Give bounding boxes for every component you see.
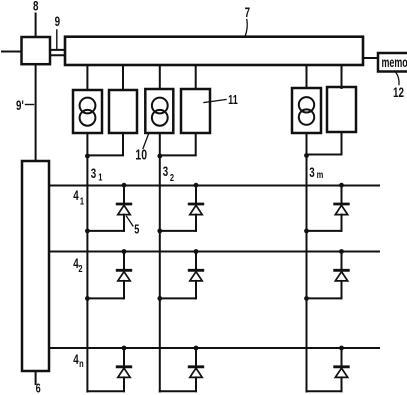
wire bus 7 to memory 12 xyxy=(363,57,378,59)
wire elbow to column 3_m xyxy=(307,297,342,299)
current source symbol circles column m xyxy=(299,97,314,112)
svg-text:3: 3 xyxy=(163,163,169,179)
svg-text:11: 11 xyxy=(228,94,238,108)
svg-text:memo: memo xyxy=(382,56,407,70)
diode D21 xyxy=(117,269,131,272)
wire row 4_2 to diode cathode xyxy=(123,252,125,271)
svg-text:4: 4 xyxy=(73,351,79,367)
diode Dn2 xyxy=(189,365,203,368)
diode cell row 4_n column 3_2 xyxy=(160,346,203,392)
diode cell row 4_1 column 3_2 xyxy=(157,183,202,234)
connector 9 (double-line link between block 8 and bus 7) xyxy=(50,49,65,51)
column wire 3_1 xyxy=(86,157,88,392)
svg-text:3: 3 xyxy=(309,164,315,180)
junction on column 3_m xyxy=(304,229,309,234)
wire diode anode down xyxy=(341,281,343,299)
wire row 4_2 to diode cathode xyxy=(195,252,197,271)
wire row 4_1 to diode cathode xyxy=(123,185,125,204)
current source box column 1 xyxy=(73,90,102,133)
leader for label 11 xyxy=(204,100,226,103)
wire row 4_n to diode cathode xyxy=(123,348,125,367)
wire diode anode down xyxy=(341,377,343,391)
diode cell row 4_n column 3_1 xyxy=(87,346,130,392)
wire box to node 3_2 (elbow) xyxy=(160,133,196,155)
wire current source 2 to node 3_2 xyxy=(159,133,161,157)
wire diode anode down xyxy=(123,281,125,299)
junction on row 4_1 xyxy=(122,183,127,188)
current source box column 2 (item 10) xyxy=(145,89,173,133)
svg-text:10: 10 xyxy=(135,146,147,163)
box 11 column 2 xyxy=(181,89,210,133)
row wire 4_1 xyxy=(49,185,379,187)
svg-text:n: n xyxy=(79,358,84,369)
junction on row 4_n xyxy=(339,346,344,351)
leader for label 5 xyxy=(126,216,133,227)
wire row 4_n to diode cathode xyxy=(341,348,343,367)
column wire 3_m xyxy=(306,157,308,392)
wire elbow to column 3_2 xyxy=(160,390,196,392)
row wire 4_n xyxy=(49,347,379,349)
block 8 (input box) xyxy=(22,37,51,64)
diode Dn1 xyxy=(117,365,131,368)
svg-text:7: 7 xyxy=(245,4,251,20)
svg-text:9: 9 xyxy=(55,13,61,29)
wire elbow to column 3_m xyxy=(307,390,342,392)
wire bus drop to current source column 1 xyxy=(86,65,88,90)
wire diode anode down xyxy=(195,281,197,299)
svg-text:8: 8 xyxy=(33,0,39,14)
wire elbow to column 3_2 xyxy=(160,230,196,232)
wire current source 1 to node 3_1 xyxy=(86,133,88,157)
wire elbow to column 3_1 xyxy=(87,390,124,392)
leader for label 12 xyxy=(396,72,400,85)
svg-text:4: 4 xyxy=(73,187,79,203)
junction on column 3_2 xyxy=(157,229,162,234)
wire box to node 3_1 (elbow) xyxy=(87,133,123,155)
diode D1m xyxy=(335,203,349,206)
memory block 12 xyxy=(378,53,407,72)
diode D2m xyxy=(335,269,349,272)
diode cell row 4_2 column 3_m xyxy=(304,249,348,301)
junction on row 4_n xyxy=(122,346,127,351)
junction node 3_1 xyxy=(85,154,90,159)
wire diode anode down xyxy=(195,215,197,231)
wire elbow to column 3_m xyxy=(307,230,342,232)
diode cell row 4_1 column 3_m xyxy=(304,183,348,234)
svg-text:5: 5 xyxy=(134,223,139,237)
wire elbow to column 3_1 xyxy=(87,297,124,299)
junction on column 3_2 xyxy=(157,296,162,301)
svg-text:9': 9' xyxy=(16,97,24,113)
wire 9' (vertical link from block 8 to block 6) xyxy=(35,64,37,161)
wire diode anode down xyxy=(341,215,343,231)
diode Dnm xyxy=(335,365,349,368)
box 11 column m xyxy=(327,87,356,132)
leader for label 7 xyxy=(245,20,247,37)
block 6 (row driver) xyxy=(22,161,49,371)
diode cell row 4_1 column 3_1 xyxy=(85,183,131,234)
svg-text:3: 3 xyxy=(91,165,97,181)
current source symbol circles column 1 xyxy=(80,98,96,114)
leader for label 9 xyxy=(56,30,58,50)
junction on row 4_2 xyxy=(339,249,344,254)
svg-text:12: 12 xyxy=(393,84,404,100)
diode D22 xyxy=(189,269,203,272)
junction on row 4_1 xyxy=(194,183,199,188)
svg-text:2: 2 xyxy=(170,172,174,183)
svg-text:m: m xyxy=(317,169,324,180)
wire left lead into block 8 xyxy=(2,51,22,53)
current source symbol circles column 2 xyxy=(152,98,168,114)
tick of label 9' xyxy=(26,104,34,106)
junction on column 3_m xyxy=(304,296,309,301)
wire box to node 3_m (elbow) xyxy=(307,132,342,155)
diode cell row 4_2 column 3_1 xyxy=(85,249,131,301)
diode D12 xyxy=(189,203,203,206)
wire bus drop to current source column 2 xyxy=(159,65,161,89)
leader for label 10 xyxy=(143,134,149,149)
current source box column m xyxy=(292,88,321,133)
wire bus drop to box 11 column 1 xyxy=(122,65,124,90)
wire elbow to column 3_2 xyxy=(160,297,196,299)
junction on row 4_n xyxy=(194,346,199,351)
junction on column 3_1 xyxy=(85,229,90,234)
wire row 4_1 to diode cathode xyxy=(341,185,343,204)
wire row 4_1 to diode cathode xyxy=(195,185,197,204)
svg-text:1: 1 xyxy=(98,171,102,182)
wire lead of label 8 xyxy=(35,14,37,38)
svg-text:6: 6 xyxy=(36,382,41,395)
svg-text:2: 2 xyxy=(78,263,82,274)
box 11 column 1 xyxy=(109,90,137,133)
wire elbow to column 3_1 xyxy=(87,230,124,232)
diode D11 xyxy=(117,203,131,206)
wire row 4_n to diode cathode xyxy=(195,348,197,367)
column wire 3_2 xyxy=(159,157,161,392)
junction on row 4_2 xyxy=(194,249,199,254)
wire diode anode down xyxy=(123,377,125,391)
wire bus drop to box 11 column 2 xyxy=(195,65,197,89)
wire lead of label 6 xyxy=(35,371,37,384)
junction node 3_2 xyxy=(157,154,162,159)
wire diode anode down xyxy=(123,215,125,231)
junction node 3_m xyxy=(304,153,309,158)
wire row 4_2 to diode cathode xyxy=(341,252,343,271)
bus bar 7 xyxy=(65,37,363,65)
junction on row 4_2 xyxy=(122,249,127,254)
diode cell row 4_2 column 3_2 xyxy=(157,249,202,301)
svg-text:1: 1 xyxy=(80,195,84,206)
junction on row 4_1 xyxy=(339,183,344,188)
row wire 4_2 xyxy=(49,251,379,253)
wire bus drop to current source column m xyxy=(306,65,308,88)
wire bus drop to box 11 column m xyxy=(341,65,343,88)
wire current source m to node 3_m xyxy=(306,133,308,157)
diode cell row 4_n column 3_m xyxy=(307,346,349,392)
junction on column 3_1 xyxy=(85,296,90,301)
wire diode anode down xyxy=(195,377,197,391)
